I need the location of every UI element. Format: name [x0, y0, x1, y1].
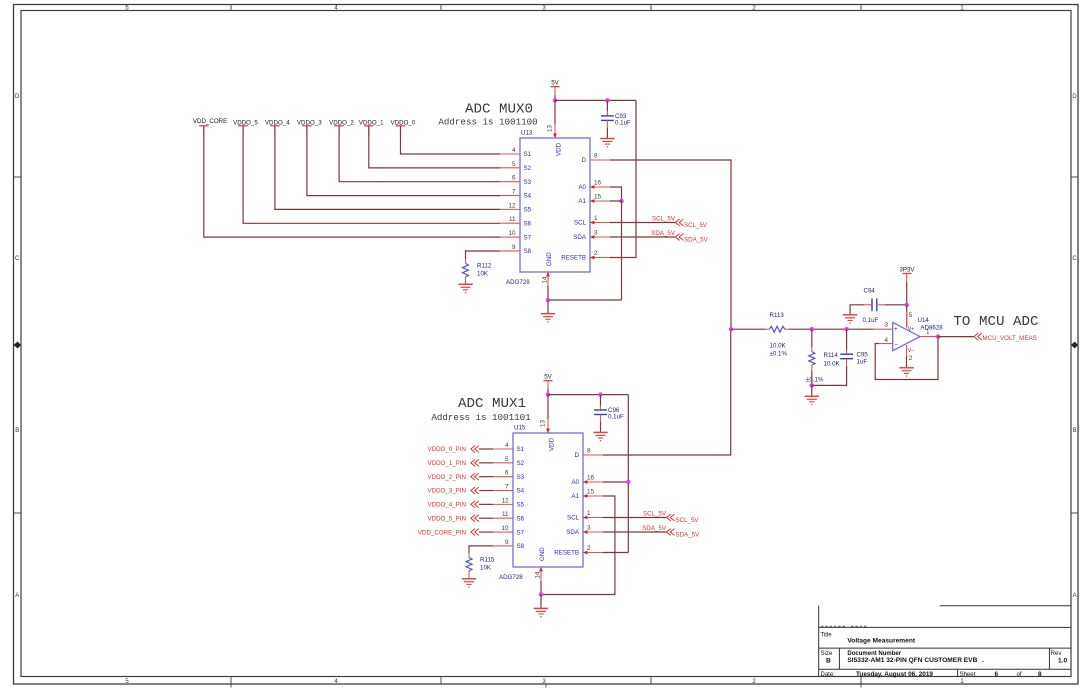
resistor R113 — [769, 326, 784, 332]
pin 3 SDA of U15 — [566, 525, 603, 537]
svg-text:C: C — [15, 256, 20, 262]
svg-text:Tuesday, August 06, 2019: Tuesday, August 06, 2019 — [856, 671, 933, 678]
pin 12 S5 of U13 — [500, 202, 532, 213]
pin 7 S4 of U15 — [493, 484, 525, 495]
svg-text:9: 9 — [512, 244, 516, 251]
pin 3P3V — [906, 274, 908, 283]
wire node to R113 — [731, 328, 765, 330]
net label VDDO_5 — [233, 120, 258, 135]
wire S8 U15 to R115 — [469, 546, 493, 553]
svg-text:SDA_5V: SDA_5V — [684, 237, 709, 244]
svg-text:±0.1%: ±0.1% — [770, 351, 788, 358]
wire gnd rail U13 — [548, 299, 622, 301]
pin R113 left — [765, 328, 769, 330]
svg-text:1: 1 — [926, 329, 930, 336]
svg-text:A: A — [1073, 593, 1077, 599]
svg-text:D: D — [575, 452, 580, 459]
svg-text:5: 5 — [505, 456, 509, 463]
power 5V U13 — [551, 79, 560, 86]
svg-text:SDA_5V: SDA_5V — [642, 525, 667, 532]
ground at C94 — [843, 315, 857, 324]
wire GND pin U15 — [540, 581, 542, 595]
ground at C93 — [600, 139, 614, 148]
wire VDDO_0 to U13 — [401, 126, 501, 154]
svg-text:U13: U13 — [521, 130, 533, 137]
svg-text:Address is 1001101: Address is 1001101 — [431, 412, 531, 423]
pin 12 S5 of U15 — [493, 497, 525, 508]
wire VDDO_1_PIN to U15 — [479, 462, 493, 464]
pin C94 right — [877, 304, 885, 306]
svg-text:6: 6 — [995, 671, 999, 678]
ground at R114 — [805, 396, 819, 405]
pin 3 SDA of U13 — [573, 230, 610, 242]
svg-text:16: 16 — [587, 475, 595, 482]
svg-text:5V: 5V — [544, 373, 552, 380]
svg-text:7: 7 — [512, 189, 516, 196]
pin 1 SCL of U13 — [574, 215, 610, 227]
capacitor C95 — [840, 353, 853, 355]
wire A1 U13 to gnd rail — [610, 201, 622, 300]
svg-text:11: 11 — [502, 511, 509, 518]
svg-text:−: − — [894, 342, 898, 349]
zone letters left — [15, 94, 20, 599]
svg-text:1.0: 1.0 — [1058, 658, 1067, 665]
svg-text:VDDO_1_PIN: VDDO_1_PIN — [427, 460, 466, 467]
svg-text:1: 1 — [587, 510, 591, 517]
wire R114 to gnd junction — [811, 371, 813, 385]
svg-text:AD8628: AD8628 — [920, 325, 943, 332]
svg-text:VDDO_2_PIN: VDDO_2_PIN — [427, 474, 466, 481]
svg-text:VDDO_0_PIN: VDDO_0_PIN — [427, 446, 466, 453]
svg-text:A1: A1 — [578, 198, 586, 205]
wire A1 U15 to gnd — [541, 496, 615, 595]
port SCL_5V U15 — [667, 514, 700, 524]
title block — [819, 606, 1071, 677]
svg-text:10K: 10K — [477, 271, 489, 278]
svg-text:3P3V: 3P3V — [899, 266, 915, 273]
wire VDDO_4_PIN to U15 — [479, 503, 493, 505]
pin C93 bottom — [606, 120, 608, 128]
svg-text:12: 12 — [508, 202, 516, 209]
wire S8 U13 to R112 — [466, 251, 501, 259]
svg-text:SI5332-AM1 32-PIN QFN CUSTOMER: SI5332-AM1 32-PIN QFN CUSTOMER EVB — [847, 657, 977, 664]
svg-text:±0.1%: ±0.1% — [806, 377, 824, 384]
pin R115 top — [468, 553, 470, 557]
wire 5V to RESETB U15 — [627, 395, 629, 553]
port VDDO_5_PIN — [427, 515, 478, 523]
svg-text:S2: S2 — [524, 165, 532, 172]
pin 3 opamp — [873, 328, 893, 330]
wire SDA U13 — [610, 236, 675, 238]
wire VDDO_2 to U13 — [339, 126, 500, 181]
svg-text:13: 13 — [540, 419, 547, 427]
port SCL_5V U13 — [675, 219, 708, 229]
ground at U13 — [541, 314, 555, 323]
svg-text:R115: R115 — [480, 557, 495, 564]
capacitor C96 — [594, 409, 607, 411]
svg-text:GND: GND — [546, 252, 553, 266]
junction C96 tap — [598, 392, 602, 396]
wire C93 to ground — [606, 128, 608, 139]
capacitor C94 — [871, 298, 873, 311]
wire VDD_CORE_PIN to U15 — [479, 531, 493, 533]
svg-text:S6: S6 — [517, 515, 525, 522]
pin 5V U13 — [554, 87, 556, 95]
mux U U13 body — [520, 138, 590, 272]
pin 4 S1 of U13 — [500, 147, 532, 158]
pin R113 right — [785, 328, 789, 330]
svg-text:SCL_5V: SCL_5V — [643, 510, 667, 517]
junction 5V rail U15 — [546, 392, 550, 396]
svg-text:S8: S8 — [517, 543, 525, 550]
svg-text:of: of — [1017, 672, 1022, 678]
title block clipped text — [821, 625, 868, 627]
net label VDDO_2 — [329, 120, 354, 135]
wire 5V rail U15 — [548, 394, 628, 396]
title block texts — [821, 633, 1068, 678]
pin 15 A1 of U13 — [578, 194, 610, 206]
junction mux outputs node — [729, 327, 733, 331]
pin 5V U15 — [547, 381, 549, 389]
svg-text:S2: S2 — [517, 460, 525, 467]
pin C94 left — [864, 304, 872, 306]
svg-text:14: 14 — [535, 571, 542, 579]
svg-text:V−: V− — [908, 348, 914, 354]
svg-text:D: D — [15, 94, 20, 100]
junction A1 U13 — [619, 199, 623, 203]
svg-text:8: 8 — [594, 153, 598, 160]
svg-text:MCU_VOLT_MEAS: MCU_VOLT_MEAS — [983, 335, 1037, 342]
svg-text:S6: S6 — [524, 220, 532, 227]
wire 5V down — [554, 95, 556, 100]
wire RESETB U15 — [603, 552, 628, 554]
pin 6 S3 of U13 — [500, 175, 532, 186]
svg-text:2: 2 — [594, 250, 598, 257]
label R115 10K — [480, 557, 495, 572]
wire 3P3V down — [906, 282, 908, 305]
port SDA_5V U13 — [675, 234, 708, 244]
svg-text:ADC MUX0: ADC MUX0 — [465, 101, 533, 117]
svg-text:A1: A1 — [571, 493, 579, 500]
port VDD_CORE_PIN — [418, 529, 479, 537]
pin 6 S3 of U15 — [493, 470, 525, 481]
capacitor C93 — [601, 115, 614, 117]
svg-text:SCL_5V: SCL_5V — [684, 222, 708, 229]
net label VDDO_0 — [391, 120, 416, 135]
pin 8 D of U15 — [575, 448, 603, 460]
svg-text:10: 10 — [501, 525, 509, 532]
svg-text:8: 8 — [587, 448, 591, 455]
power 5V U15 — [544, 373, 553, 380]
svg-text:S1: S1 — [517, 446, 525, 453]
svg-text:9: 9 — [505, 539, 509, 546]
wire SCL U13 — [610, 222, 675, 224]
pin R114 top — [811, 347, 813, 352]
svg-text:Sheet: Sheet — [960, 672, 976, 678]
pin C96 top — [600, 406, 602, 411]
svg-text:10.0K: 10.0K — [824, 361, 841, 368]
svg-text:ADG728: ADG728 — [506, 279, 530, 286]
center mark left — [14, 342, 22, 349]
ground at R112 — [458, 284, 472, 293]
pin 4 S1 of U15 — [493, 442, 525, 453]
label C93 0.1uF — [615, 113, 631, 127]
svg-text:0.1uF: 0.1uF — [608, 414, 624, 421]
svg-text:Voltage Measurement: Voltage Measurement — [847, 638, 915, 645]
wire down to R114 — [811, 329, 813, 347]
pin 16 A0 of U13 — [578, 180, 610, 192]
pin 11 S6 of U15 — [493, 511, 525, 522]
svg-text:1: 1 — [594, 215, 598, 222]
pin 9 S8 of U15 — [493, 539, 525, 550]
label C96 0.1uF — [608, 407, 624, 421]
svg-text:Rev: Rev — [1051, 651, 1062, 657]
svg-text:ADC MUX1: ADC MUX1 — [458, 396, 526, 412]
wire to ground U13 — [547, 300, 549, 314]
svg-text:RESETB: RESETB — [561, 255, 586, 262]
pin 2 RESETB of U13 — [561, 250, 610, 262]
pin R112 top — [465, 259, 467, 263]
svg-text:A0: A0 — [578, 184, 586, 191]
junction GND U13 — [546, 298, 550, 302]
svg-text:C: C — [1072, 256, 1077, 262]
port VDDO_4_PIN — [427, 501, 478, 509]
svg-text:B: B — [15, 428, 19, 434]
wire SDA U15 — [603, 531, 667, 533]
ground at opamp — [899, 368, 913, 377]
junction GND U15 — [539, 592, 543, 596]
ground at C96 — [593, 432, 607, 441]
wire 3P3V to V+ pin — [906, 305, 908, 328]
svg-text:C94: C94 — [864, 288, 876, 295]
svg-text:5: 5 — [512, 161, 516, 168]
port VDDO_0_PIN — [427, 446, 478, 454]
wire to C96 — [600, 395, 602, 406]
svg-text:SCL: SCL — [567, 515, 580, 522]
wire VDDO_4 to U13 — [275, 126, 500, 209]
wire D U13 to node — [610, 160, 731, 329]
svg-text:S7: S7 — [524, 234, 532, 241]
pin 9 S8 of U13 — [500, 244, 532, 255]
pin C96 bottom — [600, 415, 602, 423]
wire down to C95 — [846, 329, 848, 350]
wire 5V to VDD pin U13 — [554, 100, 556, 124]
svg-text:ADG728: ADG728 — [499, 574, 523, 581]
net label VDDO_4 — [265, 120, 290, 135]
wire to ground U15 — [540, 595, 542, 609]
wire VDD_CORE to U13 — [204, 126, 500, 237]
pin 5 S2 of U13 — [500, 161, 532, 172]
zone numbers bottom — [125, 679, 964, 685]
svg-text:6: 6 — [505, 470, 509, 477]
svg-text:U15: U15 — [514, 425, 526, 432]
ground at R115 — [462, 579, 476, 588]
svg-text:Date:: Date: — [821, 672, 836, 678]
resistor R112 — [463, 263, 469, 277]
pin 5 S2 of U15 — [493, 456, 525, 467]
wire VDDO_2_PIN to U15 — [479, 476, 493, 478]
svg-text:S8: S8 — [524, 248, 532, 255]
wire 5V to VDD pin U15 — [547, 395, 549, 419]
svg-text:3: 3 — [587, 525, 591, 532]
svg-text:S3: S3 — [517, 474, 525, 481]
wire VDDO_1 to U13 — [369, 126, 500, 168]
pin 1 opamp output — [920, 336, 938, 338]
svg-text:VDD: VDD — [556, 142, 563, 156]
svg-text:R112: R112 — [477, 263, 492, 270]
svg-text:SDA_5V: SDA_5V — [676, 532, 701, 539]
svg-text:3: 3 — [884, 321, 888, 328]
svg-text:SCL_5V: SCL_5V — [676, 517, 700, 524]
pin 5 opamp — [906, 312, 908, 328]
svg-text:Title: Title — [821, 633, 833, 639]
junction 3P3V opamp — [905, 303, 909, 307]
mux U U15 body — [513, 433, 583, 567]
wire to C93 — [606, 100, 608, 111]
wire V- to ground — [906, 356, 908, 368]
wire VDDO_5_PIN to U15 — [479, 517, 493, 519]
svg-text:S5: S5 — [524, 207, 532, 214]
wire A0 U13 down — [610, 187, 622, 201]
svg-text:0.1uF: 0.1uF — [863, 317, 879, 324]
pin R115 bottom — [468, 571, 470, 579]
svg-text:Size: Size — [821, 651, 833, 657]
net label VDDO_3 — [297, 120, 322, 135]
svg-text:S3: S3 — [524, 179, 532, 186]
net label VDDO_1 — [359, 120, 384, 135]
wire VDDO_5 to U13 — [243, 126, 500, 223]
svg-text:S5: S5 — [517, 502, 525, 509]
wire 5V rail U13 — [555, 99, 636, 101]
svg-text:6: 6 — [512, 175, 516, 182]
svg-text:Document Number: Document Number — [847, 651, 901, 657]
svg-text:U14: U14 — [918, 317, 930, 324]
svg-text:13: 13 — [547, 124, 554, 132]
junction C93 tap — [605, 98, 609, 102]
svg-text:Address is 1001100: Address is 1001100 — [438, 116, 537, 127]
zone numbers top — [125, 6, 964, 12]
wire 5V down U15 — [547, 389, 549, 395]
svg-text:TO MCU ADC: TO MCU ADC — [953, 314, 1038, 330]
svg-text:VDDO_5_PIN: VDDO_5_PIN — [427, 515, 466, 522]
svg-text:10K: 10K — [480, 565, 492, 572]
svg-text:+: + — [894, 326, 898, 333]
svg-text:4: 4 — [512, 147, 516, 154]
pin 10 S7 of U13 — [500, 230, 532, 241]
wire C94 to ground — [850, 305, 864, 315]
pin C95 bottom — [846, 359, 848, 366]
wire D U15 to node — [603, 329, 731, 455]
junction 5V rail U13 — [553, 98, 557, 102]
svg-text:A0: A0 — [571, 479, 579, 486]
svg-text:11: 11 — [509, 216, 516, 223]
port VDDO_3_PIN — [427, 487, 478, 495]
svg-text:VDD: VDD — [549, 437, 556, 451]
pin 15 A1 of U15 — [571, 489, 603, 501]
svg-text:GND: GND — [539, 547, 546, 561]
svg-text:4: 4 — [505, 442, 509, 449]
svg-text:B: B — [1073, 428, 1077, 434]
wire C96 to ground — [600, 422, 602, 432]
svg-text:10: 10 — [508, 230, 516, 237]
pin 10 S7 of U15 — [493, 525, 525, 536]
resistor R115 — [466, 557, 472, 571]
port SDA_5V U15 — [667, 529, 701, 539]
svg-text:12: 12 — [501, 497, 509, 504]
svg-text:SDA: SDA — [566, 529, 580, 536]
svg-text:VDDO_4_PIN: VDDO_4_PIN — [427, 502, 466, 509]
wire R113 to opamp — [789, 328, 873, 330]
svg-text:5V: 5V — [551, 79, 559, 86]
svg-text:2: 2 — [587, 545, 591, 552]
pin 14 GND of U15 — [535, 547, 547, 581]
wire feedback — [875, 337, 938, 380]
svg-text:14: 14 — [542, 276, 549, 284]
port VDDO_1_PIN — [427, 459, 478, 467]
svg-text:V+: V+ — [908, 327, 914, 333]
wire C95 to gnd junction — [812, 366, 847, 385]
svg-text:SDA: SDA — [573, 234, 587, 241]
pin 13 VDD of U13 — [547, 124, 563, 156]
resistor R114 — [809, 352, 815, 366]
label R114 10.0K 0.1% — [806, 352, 841, 384]
wire VDDO_0_PIN to U15 — [479, 448, 493, 450]
svg-text:S4: S4 — [517, 488, 525, 495]
pin 2 opamp — [906, 345, 908, 356]
ground at U15 — [534, 608, 548, 617]
op-amp U14 AD8628 — [884, 312, 943, 362]
svg-text:VDDO_3_PIN: VDDO_3_PIN — [427, 488, 466, 495]
svg-text:S7: S7 — [517, 529, 525, 536]
wire output to port — [938, 336, 974, 338]
svg-text:R114: R114 — [824, 352, 839, 359]
svg-text:SDA_5V: SDA_5V — [651, 230, 676, 237]
wire to ground R114 — [811, 385, 813, 396]
label C95 1uF — [857, 352, 869, 366]
svg-text:B: B — [826, 658, 831, 665]
svg-text:VDD_CORE_PIN: VDD_CORE_PIN — [418, 529, 466, 536]
svg-text:D: D — [582, 157, 587, 164]
svg-text:1uF: 1uF — [857, 359, 868, 366]
pin 13 VDD of U15 — [540, 419, 556, 451]
pin 1 SCL of U15 — [567, 510, 603, 522]
pin 16 A0 of U15 — [571, 475, 603, 487]
junction A0 U15 — [626, 480, 630, 484]
svg-text:15: 15 — [594, 194, 602, 201]
svg-text:R113: R113 — [770, 312, 785, 319]
svg-text:SCL_5V: SCL_5V — [652, 215, 676, 222]
port MCU_VOLT_MEAS — [974, 333, 1037, 342]
wire SCL U15 — [603, 517, 667, 519]
pin R114 bottom — [811, 365, 813, 371]
svg-text:0.1uF: 0.1uF — [615, 120, 631, 127]
pin C95 top — [846, 350, 848, 355]
net label VDD_CORE — [193, 118, 227, 135]
wire GND pin U13 — [547, 286, 549, 300]
label R113 10.0K 0.1% — [770, 312, 788, 358]
pin 11 S6 of U13 — [500, 216, 532, 227]
pin 8 D of U13 — [582, 153, 610, 165]
svg-text:7: 7 — [505, 484, 509, 491]
svg-text:S4: S4 — [524, 193, 532, 200]
pin 4 opamp — [879, 343, 893, 345]
junction R114 C95 gnd — [810, 383, 814, 387]
zone letters right — [1072, 94, 1077, 599]
wire VDDO_3 to U13 — [307, 126, 500, 195]
svg-text:15: 15 — [587, 489, 595, 496]
pin 7 S4 of U13 — [500, 189, 532, 200]
svg-text:16: 16 — [594, 180, 602, 187]
